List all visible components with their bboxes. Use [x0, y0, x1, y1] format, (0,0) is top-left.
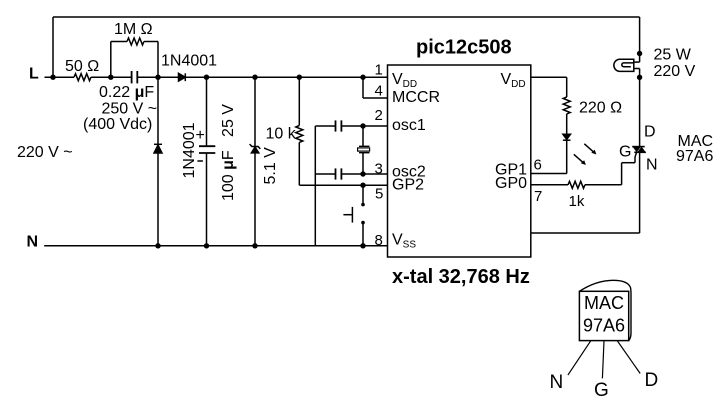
- junction dots main rail: [50, 51, 642, 249]
- svg-text:G: G: [619, 144, 631, 161]
- svg-text:1: 1: [375, 62, 383, 79]
- LED emission arrow 2: [574, 154, 583, 162]
- svg-text:25 W: 25 W: [654, 47, 692, 64]
- junction dots osc and gp2: [360, 123, 365, 128]
- svg-text:5.1 V: 5.1 V: [262, 147, 279, 185]
- pushbutton S1 lower lead: [362, 224, 364, 246]
- zener D3 5.1V column: [254, 77, 256, 246]
- lamp LP1 terminal stubs: [634, 61, 640, 63]
- resistor R2 1M zigzag: [127, 38, 144, 45]
- package lead G: [602, 341, 604, 379]
- junction dots bottom rail: [155, 243, 160, 248]
- svg-text:250 V ~: 250 V ~: [102, 101, 158, 118]
- svg-text:GP2: GP2: [392, 177, 424, 194]
- svg-text:3: 3: [375, 161, 383, 178]
- resistor R1 50 ohm: [74, 74, 91, 81]
- wire osc1 net left: [315, 125, 335, 127]
- diode D2 1N4001 vertical column: [157, 77, 159, 246]
- svg-text:L: L: [29, 66, 39, 83]
- wire D1 to IC pin1: [185, 76, 387, 78]
- capacitor C3 osc1: [335, 120, 337, 131]
- crystal X1 32768 Hz: [362, 126, 364, 147]
- svg-text:6: 6: [534, 157, 542, 174]
- wire osc2 net left: [315, 173, 335, 175]
- LED D4: [563, 134, 571, 139]
- wire top rail vertical right to lamp: [639, 17, 641, 54]
- svg-text:x-tal 32,768 Hz: x-tal 32,768 Hz: [392, 266, 530, 288]
- pushbutton contact dots: [361, 203, 365, 207]
- svg-text:+: +: [196, 127, 205, 144]
- capacitor C1 0.22uF plates: [131, 71, 133, 83]
- wire L lead-in: [45, 76, 75, 78]
- wire GP1 to LED: [531, 173, 567, 175]
- capacitor C4 osc2: [335, 168, 337, 179]
- wire top rail horizontal: [53, 16, 640, 18]
- triac Q1 MAC97A6: [632, 146, 645, 148]
- resistor R2 1M right leg: [144, 41, 158, 43]
- wire osc1 net right: [341, 125, 387, 127]
- svg-text:100 μF 25 V: 100 μF 25 V: [220, 104, 237, 201]
- svg-text:N: N: [550, 372, 564, 393]
- wire MCLR pin4 branch: [362, 77, 364, 98]
- svg-text:GP0: GP0: [495, 175, 527, 192]
- package lead N: [568, 341, 591, 376]
- lamp LP1 inner loop: [622, 63, 634, 67]
- svg-text:pic12c508: pic12c508: [416, 37, 512, 59]
- svg-text:MCCR: MCCR: [392, 89, 440, 106]
- svg-text:1M Ω: 1M Ω: [114, 21, 153, 38]
- wire VDD right to LED branch: [531, 76, 567, 78]
- diode D1 1N4001 series: [179, 73, 186, 81]
- wire osc2 net right: [341, 173, 387, 175]
- wire bottom rail N: [44, 245, 387, 247]
- wire triac MT1 down: [639, 152, 641, 233]
- package TO-92 front face: [579, 291, 628, 340]
- resistor R2 1M parallel branch left leg: [110, 42, 112, 78]
- svg-text:(400 Vdc): (400 Vdc): [83, 116, 152, 133]
- svg-text:10 k: 10 k: [266, 126, 297, 143]
- IC U1 pic12c508 body: [388, 65, 531, 257]
- resistor R5 1k: [568, 181, 585, 188]
- svg-text:N: N: [646, 156, 658, 173]
- package lead D: [617, 341, 640, 374]
- pushbutton S1 bar and stem: [351, 207, 353, 223]
- svg-text:osc1: osc1: [392, 117, 426, 134]
- wire osc caps ground vertical: [314, 126, 316, 246]
- wire C1 to D1: [137, 76, 178, 78]
- svg-text:5: 5: [375, 186, 383, 203]
- pushbutton S1 upper lead: [362, 185, 364, 203]
- svg-text:N: N: [27, 234, 39, 251]
- wire 50ohm to C1: [91, 76, 132, 78]
- resistor R4 220 ohm: [563, 97, 570, 114]
- wire lamp to triac MT2: [639, 77, 641, 146]
- svg-text:MAC: MAC: [584, 293, 624, 313]
- wire top rail vertical left: [52, 17, 54, 77]
- capacitor C2 100uF column: [206, 77, 208, 146]
- wire lamp terminal top: [639, 54, 641, 63]
- wire GP2 net: [299, 184, 387, 186]
- package TO-92 outline flap: [579, 280, 631, 340]
- svg-text:1N4001: 1N4001: [161, 53, 217, 70]
- svg-text:50 Ω: 50 Ω: [65, 58, 99, 75]
- wire R5 to gate: [585, 184, 622, 186]
- svg-text:4: 4: [375, 83, 383, 100]
- svg-text:8: 8: [375, 232, 383, 249]
- LED emission arrow 1: [584, 144, 593, 152]
- resistor R3 10k column: [298, 77, 300, 125]
- wire triac return to IC: [531, 232, 640, 234]
- wire lamp terminal bottom: [639, 69, 641, 78]
- polarity minus sign: [197, 160, 203, 162]
- svg-text:1k: 1k: [569, 193, 585, 210]
- svg-text:220 V: 220 V: [654, 63, 696, 80]
- svg-text:97A6: 97A6: [676, 148, 713, 165]
- svg-text:2: 2: [375, 107, 383, 124]
- wire GP0 to R5: [531, 184, 568, 186]
- svg-text:0.22 μF: 0.22 μF: [99, 84, 154, 101]
- svg-text:97A6: 97A6: [583, 316, 625, 336]
- svg-text:7: 7: [534, 188, 542, 205]
- svg-text:220 V ~: 220 V ~: [17, 144, 73, 161]
- svg-text:220 Ω: 220 Ω: [579, 100, 622, 117]
- svg-text:G: G: [594, 380, 609, 401]
- junction dots lamp terminals: [637, 51, 642, 56]
- wire R4 to LED: [566, 114, 568, 134]
- svg-text:D: D: [645, 370, 659, 391]
- svg-text:D: D: [644, 123, 656, 140]
- lamp LP1 outer envelope: [614, 59, 634, 71]
